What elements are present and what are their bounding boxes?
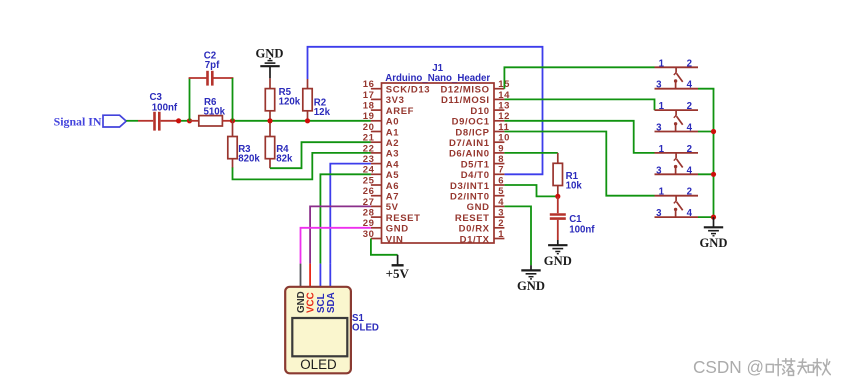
svg-text:4: 4 (687, 165, 693, 176)
ground below C1 (557, 240, 559, 245)
pin 14 D11/MOSI (right stub) (441, 90, 510, 106)
ground below switches (713, 217, 715, 227)
svg-text:D9/OC1: D9/OC1 (452, 117, 490, 128)
OLED screen area (292, 318, 347, 356)
svg-text:100nf: 100nf (569, 224, 595, 235)
svg-text:D11/MOSI: D11/MOSI (441, 95, 490, 106)
resistor R1 10k (vertical) (553, 153, 562, 197)
wire between junctions (179, 120, 190, 122)
port Signal IN (54, 115, 127, 129)
svg-text:5: 5 (498, 186, 504, 197)
switch S2 (pushbutton) (655, 110, 699, 131)
pin 10 D7/AIN1 (right stub) (449, 133, 510, 149)
wire R2 top to pin D4/T0 (blue) (308, 47, 543, 175)
pin 6 D3/INT1 (right stub) (450, 175, 504, 191)
svg-text:D1/TX: D1/TX (460, 234, 490, 245)
switch S2 pin numbers 1 2 3 4 (656, 101, 693, 133)
pin 5 D2/INT0 (right stub) (450, 186, 504, 202)
wire S3 pin4 to ground rail (698, 173, 714, 175)
svg-text:1: 1 (659, 58, 665, 69)
svg-text:2: 2 (687, 101, 692, 112)
svg-text:3: 3 (656, 123, 662, 134)
pin 19 A0 (left stub) (363, 111, 399, 127)
label S1 / OLED (352, 313, 379, 334)
pin 28 RESET (left stub) (363, 208, 421, 224)
svg-text:+5V: +5V (386, 266, 410, 281)
junction node A (C3 out) (176, 118, 181, 123)
junction node D (R5/R4 on rail) (267, 118, 272, 123)
wire D11/MOSI to S2 switch (504, 99, 654, 110)
svg-text:GND: GND (544, 254, 572, 268)
ground above R5 (256, 46, 284, 78)
resistor R6 510k (horizontal) (199, 116, 223, 126)
svg-text:30: 30 (363, 229, 375, 240)
svg-text:A5: A5 (386, 170, 399, 181)
pin 21 A2 (left stub) (363, 133, 399, 149)
pin 26 A7 (left stub) (363, 186, 399, 202)
switch S1 (pushbutton) (655, 67, 699, 88)
pin 22 A3 (left stub) (363, 143, 399, 159)
svg-text:1: 1 (659, 187, 665, 198)
label R2 / 12k (314, 98, 331, 119)
svg-text:OLED: OLED (300, 357, 337, 372)
wire R4 to pin A2 (270, 142, 371, 168)
svg-text:2: 2 (687, 58, 692, 69)
svg-text:5V: 5V (386, 202, 399, 213)
pin 18 AREF (left stub) (363, 101, 414, 117)
svg-text:RESET: RESET (455, 213, 490, 224)
capacitor C1 100nf (550, 196, 566, 240)
watermark CSDN (693, 357, 830, 377)
svg-text:4: 4 (687, 80, 693, 91)
svg-text:1: 1 (498, 229, 504, 240)
pin 15 D12/MISO (right stub) (440, 79, 510, 95)
display module S1 OLED body (285, 287, 351, 374)
svg-text:9: 9 (498, 143, 504, 154)
svg-text:GND: GND (700, 236, 728, 250)
power +5V (386, 255, 410, 281)
pin 17 3V3 (left stub) (363, 90, 405, 106)
label C3 / 100nf (150, 92, 178, 114)
wire GND pin4 down (504, 206, 531, 265)
OLED pin stub SCL (319, 264, 321, 288)
svg-text:SDA: SDA (326, 292, 337, 313)
switch S3 (pushbutton) (655, 153, 699, 174)
svg-text:3: 3 (656, 80, 662, 91)
switch S1 pin numbers 1 2 3 4 (656, 58, 693, 90)
svg-text:A7: A7 (386, 192, 399, 203)
ground below pin4 wire (530, 265, 532, 270)
pin 13 D10 (right stub) (470, 101, 510, 117)
svg-text:3: 3 (498, 208, 504, 219)
junction node F (R1/C1/D3) (555, 194, 560, 199)
svg-text:26: 26 (363, 186, 375, 197)
svg-text:820k: 820k (238, 153, 260, 164)
wire S2 pin4 to ground rail (698, 131, 714, 133)
wire 5V to OLED VCC (purple) (310, 206, 371, 263)
capacitor C3 100nf (138, 112, 179, 131)
svg-text:8: 8 (498, 154, 504, 165)
wire A4 to OLED SDA (blue) (330, 164, 371, 264)
pin 4 GND (right stub) (467, 197, 505, 213)
wire D9/OC1 to S3 switch (504, 121, 654, 153)
junction S2 to rail (711, 129, 716, 134)
svg-text:120k: 120k (279, 96, 301, 107)
svg-text:1: 1 (659, 144, 665, 155)
svg-text:VIN: VIN (386, 234, 404, 245)
svg-text:D7/AIN1: D7/AIN1 (449, 138, 490, 149)
pin 7 D4/T0 (right stub) (461, 165, 505, 181)
svg-text:3V3: 3V3 (386, 95, 405, 106)
svg-text:D5/T1: D5/T1 (461, 159, 490, 170)
pin 25 A6 (left stub) (363, 175, 399, 191)
wire S4 pin4 to ground rail (698, 216, 714, 218)
svg-text:OLED: OLED (352, 323, 379, 334)
svg-text:2: 2 (687, 187, 692, 198)
pin 2 D0/RX (right stub) (459, 218, 505, 234)
svg-text:A1: A1 (386, 127, 399, 138)
svg-text:10k: 10k (566, 181, 583, 192)
svg-text:A2: A2 (386, 138, 399, 149)
svg-text:J1: J1 (432, 63, 443, 74)
OLED pin stub SDA (329, 264, 331, 288)
pin 1 D1/TX (right stub) (460, 229, 505, 245)
wire junction B to R6 (190, 120, 200, 122)
svg-text:D6/AIN0: D6/AIN0 (449, 149, 490, 160)
resistor R2 12k (vertical) (303, 79, 312, 121)
svg-text:A3: A3 (386, 149, 399, 160)
svg-text:RESET: RESET (386, 213, 421, 224)
svg-text:GND: GND (517, 279, 545, 293)
wire D3/INT1 to R1/C1 node (504, 185, 557, 196)
pin 24 A5 (left stub) (363, 165, 400, 181)
label R5 / 120k (279, 87, 301, 108)
svg-text:20: 20 (363, 122, 375, 133)
pin 9 D6/AIN0 (right stub) (449, 143, 504, 159)
pin 29 GND (left stub) (363, 218, 409, 234)
svg-text:3: 3 (656, 208, 662, 219)
svg-text:82k: 82k (276, 153, 293, 164)
svg-text:1: 1 (659, 101, 665, 112)
svg-text:D2/INT0: D2/INT0 (450, 192, 490, 203)
svg-text:D8/ICP: D8/ICP (455, 127, 489, 138)
svg-text:A4: A4 (386, 159, 399, 170)
wire S1 pin4 to ground rail (698, 88, 714, 90)
svg-text:4: 4 (687, 123, 693, 134)
wire R3 to pin A3 (233, 153, 371, 180)
svg-text:Arduino_Nano_Header: Arduino_Nano_Header (385, 73, 490, 84)
svg-text:7pf: 7pf (205, 60, 220, 71)
resistor R3 820k (vertical) (228, 121, 237, 168)
svg-text:D0/RX: D0/RX (459, 224, 490, 235)
svg-text:D12/MISO: D12/MISO (440, 85, 489, 96)
svg-text:GND: GND (386, 224, 409, 235)
junction node C (R6/C2/R3) (230, 118, 235, 123)
label C1 / 100nf (569, 214, 595, 236)
junction S4 to rail (711, 215, 716, 220)
label R6 / 510k (204, 97, 226, 118)
svg-text:GND: GND (467, 202, 490, 213)
svg-text:4: 4 (687, 208, 693, 219)
wire D12/MISO to S1 switch (504, 67, 654, 88)
label R1 / 10k (566, 171, 583, 192)
svg-text:C3: C3 (150, 92, 163, 103)
capacitor C2 7pf (parallel branch) (189, 71, 234, 121)
svg-text:Signal IN: Signal IN (54, 115, 102, 129)
wire VIN to +5V (371, 239, 398, 255)
svg-text:100nf: 100nf (152, 102, 178, 113)
pin 27 5V (left stub) (363, 197, 399, 213)
label R3 / 820k (238, 144, 260, 164)
svg-text:3: 3 (656, 165, 662, 176)
svg-text:A0: A0 (386, 117, 399, 128)
svg-text:4: 4 (498, 197, 504, 208)
pin 11 D8/ICP (right stub) (455, 122, 509, 138)
svg-text:16: 16 (363, 79, 375, 90)
junction node E (R2 on rail) (305, 118, 310, 123)
wire D8/ICP to S4 switch (504, 132, 654, 196)
resistor R4 82k (vertical) (265, 121, 274, 168)
label R4 / 82k (276, 144, 293, 164)
svg-text:D4/T0: D4/T0 (461, 170, 490, 181)
svg-text:C1: C1 (569, 214, 582, 225)
wire R6 to junction C (222, 120, 232, 122)
svg-text:13: 13 (498, 101, 510, 112)
svg-text:2: 2 (687, 144, 692, 155)
svg-text:12k: 12k (314, 107, 331, 118)
svg-text:22: 22 (363, 143, 375, 154)
svg-text:19: 19 (363, 111, 375, 122)
svg-text:28: 28 (363, 208, 375, 219)
pin 8 D5/T1 (right stub) (461, 154, 505, 170)
junction node B (C2 left tap) (187, 118, 192, 123)
svg-text:D10: D10 (470, 106, 489, 117)
pin 23 A4 (left stub) (363, 154, 400, 170)
svg-text:6: 6 (498, 175, 504, 186)
pin 30 VIN (left stub) (363, 229, 404, 245)
wire switch ground rail (713, 89, 715, 217)
svg-text:D3/INT1: D3/INT1 (450, 181, 490, 192)
svg-text:7: 7 (498, 165, 504, 176)
svg-text:A6: A6 (386, 181, 399, 192)
svg-text:2: 2 (498, 218, 504, 229)
svg-text:AREF: AREF (386, 106, 414, 117)
wire D6/AIN0 to R1 (504, 152, 557, 154)
svg-text:GND: GND (256, 46, 284, 60)
svg-text:SCK/D13: SCK/D13 (386, 85, 430, 96)
wire main rail to pin A0 (233, 120, 371, 122)
svg-text:510k: 510k (204, 107, 226, 118)
pin 3 RESET (right stub) (455, 208, 504, 224)
resistor R5 120k (vertical) (265, 78, 274, 121)
wire port to C3 (126, 120, 138, 122)
svg-text:21: 21 (363, 133, 375, 144)
junction S3 to rail (711, 172, 716, 177)
switch S3 pin numbers 1 2 3 4 (656, 144, 693, 176)
pin 12 D9/OC1 (right stub) (452, 111, 510, 127)
pin 20 A1 (left stub) (363, 122, 400, 138)
wire A5 to OLED SCL (green) (320, 174, 371, 263)
svg-text:17: 17 (363, 90, 375, 101)
svg-text:18: 18 (363, 101, 375, 112)
pin 16 SCK/D13 (left stub) (363, 79, 430, 95)
switch S4 (pushbutton) (655, 196, 699, 217)
op-amp? no: connector J1 Arduino Nano Header body (382, 83, 495, 243)
OLED pin stub GND (300, 264, 302, 288)
svg-text:CSDN @: CSDN @ (693, 357, 764, 377)
svg-text:10: 10 (498, 133, 510, 144)
svg-text:25: 25 (363, 175, 375, 186)
label C2 / 7pf (204, 50, 220, 71)
OLED pin stub VCC (309, 264, 311, 288)
wire GND pin29 to OLED GND (magenta) (301, 228, 371, 264)
switch S4 pin numbers 1 2 3 4 (656, 187, 693, 219)
